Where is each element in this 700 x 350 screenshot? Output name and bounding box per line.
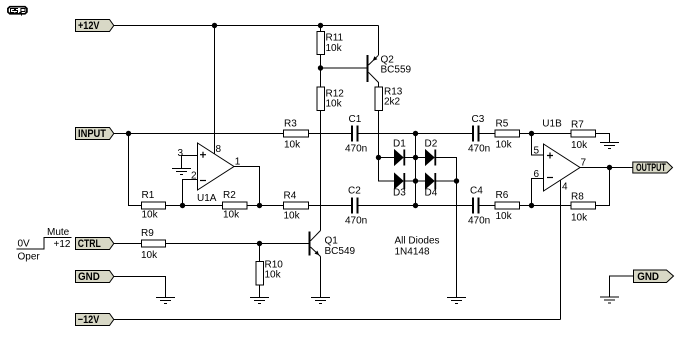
svg-text:Mute: Mute <box>47 227 70 238</box>
svg-text:1: 1 <box>235 157 241 168</box>
op-amp U1B plus <box>547 153 553 159</box>
op-amp U1B minus <box>547 177 553 179</box>
wire U1B pin6 stub <box>532 179 544 206</box>
tag texts <box>78 20 666 326</box>
port tag OUTPUT <box>633 162 673 173</box>
wire diode row2 segments <box>405 180 457 182</box>
svg-text:10k: 10k <box>141 250 158 261</box>
svg-text:10k: 10k <box>571 140 588 151</box>
node R9 R10 <box>257 241 262 246</box>
svg-text:GND: GND <box>78 271 100 283</box>
resistor R4 10k <box>284 202 309 209</box>
ground R7 <box>600 143 619 149</box>
node R11 on +12V <box>318 23 323 28</box>
svg-text:R3: R3 <box>284 119 297 130</box>
wire Q1 emitter to ground <box>320 257 322 298</box>
svg-text:INPUT: INPUT <box>78 128 106 140</box>
svg-text:4: 4 <box>562 182 568 193</box>
svg-text:U1B: U1B <box>542 119 562 130</box>
svg-text:2k2: 2k2 <box>384 96 401 107</box>
svg-text:R6: R6 <box>496 190 509 201</box>
wire R4 to C2 <box>309 205 352 207</box>
wire CTRL row <box>114 243 309 245</box>
wire U1B pin4 <box>560 180 562 320</box>
wire U1A pin3 stub <box>182 156 198 169</box>
svg-text:D3: D3 <box>393 188 406 199</box>
wire U1B pin5 stub <box>532 134 544 156</box>
wires and boxes (crisp) <box>17 26 634 320</box>
resistor R7 10k <box>571 130 596 137</box>
svg-text:470n: 470n <box>468 216 490 227</box>
node input <box>126 131 131 136</box>
resistor R2 10k <box>223 202 248 209</box>
wire R13 to diode rail left <box>379 111 395 182</box>
port tag +12V <box>76 20 114 32</box>
svg-text:U1A: U1A <box>197 193 217 204</box>
port tag INPUT <box>76 128 114 140</box>
svg-text:R9: R9 <box>141 228 154 239</box>
svg-text:2: 2 <box>191 171 197 182</box>
port tag GND left <box>76 271 114 283</box>
resistor R12 10k <box>317 87 325 111</box>
ground U1A pin3 <box>172 169 191 175</box>
diode D1 <box>395 150 404 165</box>
port tag CTRL <box>76 238 114 250</box>
svg-text:10k: 10k <box>496 211 513 222</box>
node pin8 on +12V <box>212 23 217 28</box>
svg-text:Oper: Oper <box>18 251 41 262</box>
resistor R6 10k <box>495 202 520 209</box>
resistor R11 10k <box>317 32 325 55</box>
wire R7 to ground <box>596 134 610 143</box>
node left rail D1 <box>376 155 381 160</box>
svg-text:470n: 470n <box>468 144 490 155</box>
op-amp U1A triangle <box>198 143 235 190</box>
svg-text:BC559: BC559 <box>381 64 412 75</box>
svg-text:D1: D1 <box>393 138 406 149</box>
wire C3 right to R5 <box>480 133 496 135</box>
resistor R8 10k <box>571 202 596 209</box>
svg-text:C4: C4 <box>470 186 483 197</box>
svg-text:10k: 10k <box>571 212 588 223</box>
svg-text:10k: 10k <box>284 211 301 222</box>
wire R10 branch <box>259 244 261 298</box>
svg-text:10k: 10k <box>142 210 159 221</box>
wire C1 right to C3 left <box>359 133 473 135</box>
node R6 R8 pin6 <box>529 203 534 208</box>
svg-text:R1: R1 <box>142 190 155 201</box>
wire bridge right rail to ground <box>456 181 458 298</box>
wire GND right tag to ground <box>610 276 634 297</box>
svg-text:10k: 10k <box>284 140 301 151</box>
resistor R3 10k <box>284 130 309 137</box>
svg-text:6: 6 <box>534 169 540 180</box>
wire node to R8 <box>532 205 572 207</box>
wire GND tag left to ground <box>114 277 166 298</box>
wire R5 to U1B pin5 node <box>520 133 532 135</box>
svg-text:0V: 0V <box>18 239 31 250</box>
node R1 R2 pin2 <box>180 203 185 208</box>
ground below GND tag left <box>156 298 175 304</box>
node C1 C3 center top <box>413 131 418 136</box>
resistor R13 2k2 <box>375 87 383 111</box>
transistor Q2 emitter arrow <box>373 56 378 61</box>
diode D3 <box>395 174 404 189</box>
svg-text:All Diodes: All Diodes <box>395 236 440 247</box>
wire pin1 output down <box>234 167 260 206</box>
mute step waveform <box>17 238 72 250</box>
op-amp U1B triangle <box>544 144 581 191</box>
wire U1A pin8 power <box>214 26 216 154</box>
svg-text:10k: 10k <box>326 43 343 54</box>
svg-text:1N4148: 1N4148 <box>395 247 430 258</box>
diagonal / shaped elements <box>198 55 581 256</box>
ground symbols <box>156 143 619 304</box>
ground R10 <box>250 298 269 304</box>
wire C2 to C4 <box>359 205 473 207</box>
svg-text:R5: R5 <box>496 119 509 130</box>
svg-text:R7: R7 <box>571 119 584 130</box>
diode D2 <box>426 150 435 165</box>
svg-text:+12: +12 <box>54 239 71 250</box>
svg-text:7: 7 <box>581 158 587 169</box>
ground diode bridge <box>447 298 466 304</box>
transistor Q2 emitter diagonal <box>369 55 379 65</box>
svg-text:3: 3 <box>178 148 184 159</box>
transistor Q2 collector diagonal <box>369 72 379 87</box>
node Q2 base / R11 R12 <box>318 65 323 70</box>
wire R6 to pin6 node <box>520 205 532 207</box>
svg-text:10k: 10k <box>265 270 282 281</box>
capacitor C3 bars <box>472 126 474 142</box>
resistor R1 10k <box>142 202 166 209</box>
port tags <box>76 20 674 326</box>
wire center column <box>415 134 417 206</box>
svg-text:−12V: −12V <box>78 314 100 326</box>
diode D4 <box>426 174 435 189</box>
capacitor C1 bars <box>351 126 353 142</box>
capacitor C2 bars <box>351 198 353 214</box>
svg-text:8: 8 <box>216 144 222 155</box>
svg-text:10k: 10k <box>326 98 343 109</box>
ESP logo <box>8 7 27 16</box>
wire -12V rail <box>114 319 561 321</box>
node D3 D4 center <box>413 178 418 183</box>
wire Q1 collector vertical <box>320 111 322 231</box>
transistor Q1 emitter arrow <box>315 251 320 256</box>
wire input node down to R1 <box>129 134 142 206</box>
resistor R5 10k <box>495 130 520 137</box>
svg-text:Q1: Q1 <box>325 236 339 247</box>
wire input row top <box>114 133 352 135</box>
svg-text:C2: C2 <box>348 186 361 197</box>
wire R1 to R2 with pin2 branch <box>166 205 223 207</box>
wire node to R7 <box>532 133 572 135</box>
svg-text:10k: 10k <box>223 210 240 221</box>
wire C4 to R6 <box>480 205 496 207</box>
wire pin2 stub <box>183 180 198 206</box>
svg-text:R2: R2 <box>223 190 236 201</box>
svg-text:C3: C3 <box>472 114 485 125</box>
transistor Q1 emitter diagonal <box>311 247 321 257</box>
wire Q2 emitter vertical <box>378 26 380 56</box>
wire U1B pin7 to OUTPUT <box>580 167 633 169</box>
svg-text:R4: R4 <box>284 190 297 201</box>
wire Q2 base <box>321 67 367 69</box>
svg-text:470n: 470n <box>345 144 367 155</box>
node D1 D2 center <box>413 155 418 160</box>
svg-text:+12V: +12V <box>78 20 100 32</box>
ground GND tag right <box>600 297 619 303</box>
ground Q1 emitter <box>311 298 330 304</box>
wire R8 up to output node <box>596 168 610 206</box>
wire R11 R12 column <box>320 26 322 226</box>
node C2 C4 center bottom <box>413 203 418 208</box>
svg-text:5: 5 <box>534 146 540 157</box>
transistor Q1 collector diagonal <box>311 231 321 241</box>
port tag GND right <box>634 270 674 283</box>
node R5 pin5 <box>529 131 534 136</box>
svg-text:CTRL: CTRL <box>78 238 101 250</box>
svg-text:R8: R8 <box>571 191 584 202</box>
svg-text:D4: D4 <box>425 188 438 199</box>
node R2 R4 pin1 <box>257 203 262 208</box>
svg-text:C1: C1 <box>349 114 362 125</box>
wire +12V rail <box>114 25 379 27</box>
wire diode row1 segments <box>379 158 457 182</box>
transistor Q1 base bar <box>309 232 311 256</box>
op-amp U1A minus <box>200 180 206 182</box>
svg-text:10k: 10k <box>496 140 513 151</box>
resistor R9 10k <box>142 240 166 247</box>
port tag -12V <box>76 314 114 326</box>
wire R2 to R4 <box>247 205 284 207</box>
node pin7 output <box>607 165 612 170</box>
node D4 right rail <box>454 178 459 183</box>
op-amp U1A plus <box>200 152 206 158</box>
svg-text:GND: GND <box>637 271 659 283</box>
svg-text:D2: D2 <box>425 138 438 149</box>
transistor Q2 base bar <box>367 55 369 82</box>
svg-text:470n: 470n <box>345 216 367 227</box>
svg-text:BC549: BC549 <box>325 246 356 257</box>
svg-text:OUTPUT: OUTPUT <box>636 162 666 174</box>
capacitor C4 bars <box>472 198 474 214</box>
resistor R10 10k <box>256 262 264 286</box>
